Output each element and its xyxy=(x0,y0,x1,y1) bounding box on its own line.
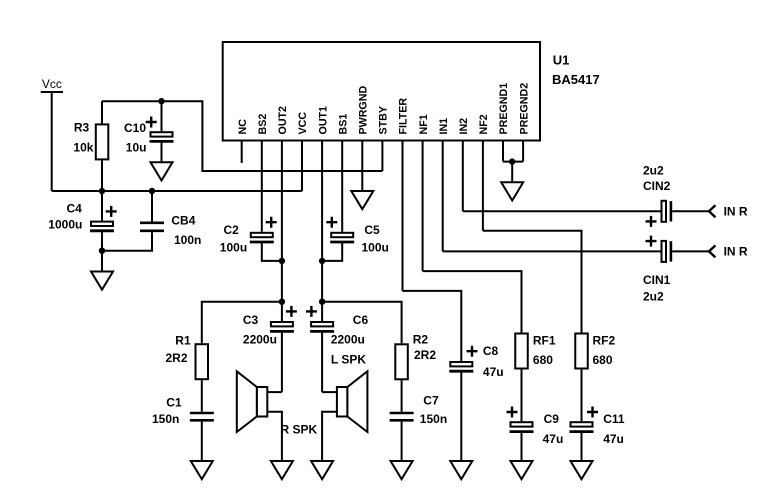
polarity + C6 xyxy=(306,306,317,317)
svg-text:C8: C8 xyxy=(483,344,499,358)
node OUT2/R1 junction xyxy=(279,299,285,305)
wire C9 to ground xyxy=(521,432,523,460)
svg-text:10u: 10u xyxy=(126,141,147,155)
wire C8 to ground xyxy=(460,371,462,460)
wire R2 to C7 xyxy=(401,380,403,411)
svg-text:OUT2: OUT2 xyxy=(277,106,289,135)
svg-text:VCC: VCC xyxy=(297,112,309,135)
svg-text:R1: R1 xyxy=(175,334,191,348)
wire PREGND ground drop xyxy=(511,162,513,182)
capacitor C9 xyxy=(511,422,533,426)
pin 7 PWRGND stub xyxy=(361,142,363,191)
svg-text:100n: 100n xyxy=(174,233,201,247)
ground PWRGND xyxy=(351,191,373,209)
polarity + C11 xyxy=(587,407,598,418)
svg-text:FILTER: FILTER xyxy=(398,98,410,135)
svg-text:C6: C6 xyxy=(353,313,369,327)
polarity + CIN2 xyxy=(646,216,657,227)
wire FILTER to C8 xyxy=(403,291,462,361)
svg-text:150n: 150n xyxy=(420,412,447,426)
svg-text:CIN1: CIN1 xyxy=(643,273,671,287)
svg-text:1000u: 1000u xyxy=(48,218,82,232)
wire C10 to ground xyxy=(161,141,163,161)
pin 8 STBY stub xyxy=(381,142,383,172)
wire L SPK bottom terminal to ground xyxy=(322,412,337,460)
resistor R1 xyxy=(196,344,209,379)
pin 9 FILTER stub xyxy=(402,142,404,291)
wire C4 bottom xyxy=(101,231,103,271)
op-amp U1 BA5417 IC body xyxy=(223,42,540,141)
resistor RF1 xyxy=(515,334,528,369)
svg-text:47u: 47u xyxy=(603,432,624,446)
pin 5 OUT1 stub xyxy=(321,142,323,322)
svg-text:C1: C1 xyxy=(166,396,182,410)
svg-text:2R2: 2R2 xyxy=(166,351,188,365)
svg-text:IN1: IN1 xyxy=(438,118,450,135)
speaker L SPK xyxy=(337,387,348,417)
pin labels rotated xyxy=(237,83,530,135)
capacitor C8 xyxy=(450,362,472,366)
pin 15 PREGND2 stub xyxy=(522,142,524,162)
svg-text:U1: U1 xyxy=(553,53,570,68)
capacitor C1 xyxy=(190,412,214,415)
svg-text:C3: C3 xyxy=(243,313,259,327)
svg-text:RF2: RF2 xyxy=(593,334,616,348)
svg-text:Vcc: Vcc xyxy=(42,77,62,91)
svg-text:NF2: NF2 xyxy=(478,114,490,134)
svg-text:C11: C11 xyxy=(603,412,625,426)
svg-text:47u: 47u xyxy=(483,365,504,379)
svg-text:C5: C5 xyxy=(364,223,380,237)
wire IN2 to CIN2 xyxy=(463,210,661,212)
wire IN1 to CIN1 xyxy=(443,250,661,252)
svg-text:680: 680 xyxy=(533,353,553,367)
capacitor CB4 xyxy=(151,191,153,222)
capacitor C6 xyxy=(311,322,333,326)
ground L SPK xyxy=(311,461,333,479)
svg-text:2200u: 2200u xyxy=(331,333,365,347)
speaker R SPK xyxy=(257,387,268,417)
ground PREGND xyxy=(501,182,523,200)
wire R SPK bottom terminal to ground xyxy=(267,412,282,460)
ground C8 xyxy=(450,461,472,479)
svg-text:47u: 47u xyxy=(543,432,564,446)
wire STBY to R3/C10 top xyxy=(102,101,382,171)
ground C7 xyxy=(391,461,413,479)
polarity + C3 xyxy=(286,306,297,317)
svg-text:10k: 10k xyxy=(73,141,93,155)
wire C2 bottom to OUT2 xyxy=(262,242,282,261)
node CB4 rail junction xyxy=(149,188,155,194)
svg-text:R2: R2 xyxy=(413,333,429,347)
ground C10 xyxy=(151,162,173,180)
svg-text:CIN2: CIN2 xyxy=(643,179,671,193)
wire CB4 bottom to C4 bottom xyxy=(102,232,152,251)
svg-text:PWRGND: PWRGND xyxy=(358,86,370,135)
svg-text:NC: NC xyxy=(237,119,249,135)
capacitor CIN1 xyxy=(662,241,667,262)
svg-text:680: 680 xyxy=(593,353,613,367)
svg-text:R3: R3 xyxy=(74,121,90,135)
pin 3 OUT2 stub xyxy=(281,142,283,322)
pin 2 BS2 stub xyxy=(261,142,263,232)
polarity + C8 xyxy=(467,346,478,357)
svg-text:C7: C7 xyxy=(423,394,439,408)
svg-text:C9: C9 xyxy=(544,412,560,426)
capacitor C10 xyxy=(161,101,163,131)
capacitor C7 xyxy=(390,412,414,415)
wire R1 to C1 xyxy=(201,380,203,412)
svg-text:2u2: 2u2 xyxy=(643,290,664,304)
svg-text:IN R: IN R xyxy=(724,205,748,219)
svg-text:BS2: BS2 xyxy=(257,114,269,135)
node OUT1/R2 junction xyxy=(319,299,325,305)
svg-text:2u2: 2u2 xyxy=(643,164,664,178)
svg-text:2200u: 2200u xyxy=(243,333,277,347)
wire L SPK top terminal xyxy=(322,391,337,393)
wire R3 bottom through rail to C4 xyxy=(101,160,103,220)
pin 1 NC stub xyxy=(241,142,243,164)
ground C9 xyxy=(511,461,533,479)
wire OUT2 tap to R1 xyxy=(202,302,282,344)
resistor R3 xyxy=(101,101,103,123)
svg-text:L SPK: L SPK xyxy=(331,353,366,367)
pin 4 VCC stub xyxy=(301,142,303,192)
polarity + C4 xyxy=(106,206,117,217)
wire CIN1 to input xyxy=(672,250,709,252)
wire OUT2 below C3 to speaker xyxy=(281,331,283,392)
ground C1 xyxy=(191,461,213,479)
svg-text:RF1: RF1 xyxy=(533,334,556,348)
wire R SPK top terminal xyxy=(267,391,282,393)
pin 6 BS1 stub xyxy=(341,142,343,232)
ground R SPK xyxy=(271,461,293,479)
resistor R2 xyxy=(395,344,408,379)
svg-text:BA5417: BA5417 xyxy=(552,72,600,87)
pin 13 NF2 stub xyxy=(482,142,484,231)
wire C1 to ground xyxy=(201,422,203,460)
svg-text:IN R: IN R xyxy=(724,245,748,259)
svg-text:BS1: BS1 xyxy=(337,114,349,135)
polarity + C2 xyxy=(266,217,277,228)
capacitor C5 xyxy=(331,233,353,237)
node C2/OUT2 junction xyxy=(279,258,285,264)
node C10 top junction xyxy=(158,98,164,104)
plus signs xyxy=(106,117,657,418)
wire PREGND bar xyxy=(503,161,523,163)
svg-text:STBY: STBY xyxy=(378,106,390,135)
polarity + CIN1 xyxy=(646,236,657,247)
wire C5 bottom to OUT1 xyxy=(322,242,342,261)
capacitor C2 xyxy=(251,233,273,237)
svg-text:R SPK: R SPK xyxy=(281,423,318,437)
node C4 bottom junction xyxy=(99,248,105,254)
svg-text:CB4: CB4 xyxy=(171,214,195,228)
svg-text:OUT1: OUT1 xyxy=(317,106,329,135)
pin 12 IN2 stub xyxy=(462,142,464,212)
svg-text:C2: C2 xyxy=(224,223,240,237)
wire OUT1 tap to R2 xyxy=(322,302,402,344)
polarity + C5 xyxy=(326,217,337,228)
svg-text:150n: 150n xyxy=(152,412,179,426)
node R3 rail junction xyxy=(99,188,105,194)
wire CIN2 to input xyxy=(672,210,709,212)
capacitor CIN2 xyxy=(662,201,667,222)
svg-text:PREGND1: PREGND1 xyxy=(498,83,510,135)
node IN R top arrow xyxy=(709,205,715,217)
wire Vcc rail vertical xyxy=(51,92,53,191)
svg-text:NF1: NF1 xyxy=(418,114,430,134)
resistor RF2 xyxy=(575,334,588,369)
svg-text:C10: C10 xyxy=(124,121,146,135)
polarity + C9 xyxy=(507,407,518,418)
polarity + C10 xyxy=(146,117,157,128)
svg-text:100u: 100u xyxy=(362,241,389,255)
wire NF2 to RF2 xyxy=(483,231,582,333)
wire VCC supply rail horizontal xyxy=(52,190,302,192)
svg-text:PREGND2: PREGND2 xyxy=(518,83,530,135)
pin 14 PREGND1 stub xyxy=(502,142,504,162)
node IN R bottom arrow xyxy=(709,245,715,257)
ground C11 xyxy=(571,461,593,479)
svg-text:2R2: 2R2 xyxy=(414,348,436,362)
capacitor C3 xyxy=(271,322,293,326)
wire RF1 to C9 xyxy=(521,370,523,422)
capacitor C11 xyxy=(571,422,593,426)
wire OUT1 below C6 to speaker xyxy=(321,331,323,392)
pin 10 NF1 stub xyxy=(422,142,424,272)
svg-text:IN2: IN2 xyxy=(458,118,470,135)
junction dots xyxy=(99,98,516,305)
pin 11 IN1 stub xyxy=(442,142,444,252)
wire C11 to ground xyxy=(581,432,583,460)
wire RF2 to C11 xyxy=(581,370,583,422)
wire NF1 to RF1 xyxy=(423,271,522,332)
power symbol Vcc xyxy=(41,91,63,93)
capacitor C4 xyxy=(91,222,113,226)
svg-text:C4: C4 xyxy=(67,202,83,216)
node C5/OUT1 junction xyxy=(319,258,325,264)
ground C4 xyxy=(91,272,113,290)
svg-text:100u: 100u xyxy=(220,241,247,255)
wire C7 to ground xyxy=(401,422,403,460)
node PREGND junction xyxy=(509,158,515,164)
